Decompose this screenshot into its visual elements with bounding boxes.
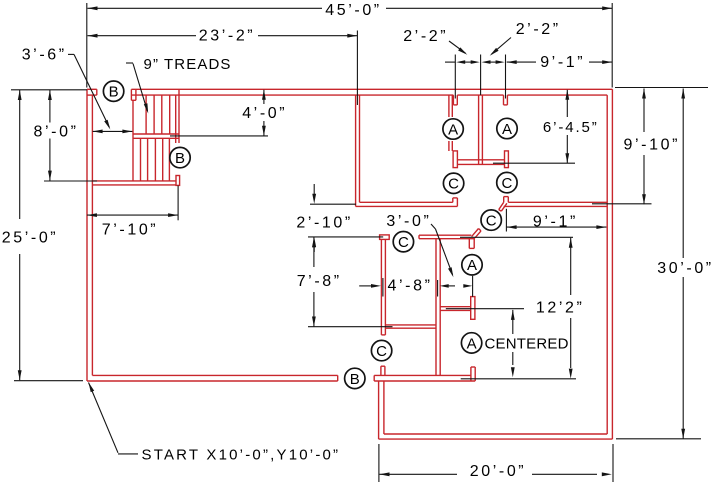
svg-text:A: A [467,257,477,274]
svg-text:2’-2”: 2’-2” [516,21,561,38]
svg-text:12’2”: 12’2” [536,299,585,316]
svg-text:20’-0”: 20’-0” [470,463,527,480]
svg-text:3’-0”: 3’-0” [386,213,431,230]
svg-text:7’-8”: 7’-8” [297,273,342,290]
svg-text:C: C [398,234,409,251]
svg-text:B: B [109,84,119,101]
svg-text:23’-2”: 23’-2” [199,28,256,45]
svg-text:25’-0”: 25’-0” [2,229,59,246]
svg-text:8’-0”: 8’-0” [33,124,78,141]
svg-text:B: B [350,371,360,388]
svg-text:B: B [175,150,185,167]
svg-text:9’-1”: 9’-1” [540,54,585,71]
svg-text:C: C [501,175,512,192]
svg-text:A: A [448,121,458,138]
svg-text:A: A [467,335,477,352]
svg-text:2’-10”: 2’-10” [296,214,353,231]
svg-text:4’-0”: 4’-0” [242,105,287,122]
svg-text:9” TREADS: 9” TREADS [144,56,232,73]
svg-text:C: C [448,176,459,193]
svg-text:START X10’-0”,Y10’-0”: START X10’-0”,Y10’-0” [142,447,341,464]
svg-text:A: A [502,121,512,138]
svg-text:3’-6”: 3’-6” [22,46,67,63]
svg-text:30’-0”: 30’-0” [657,260,714,277]
svg-text:CENTERED: CENTERED [485,335,569,352]
svg-text:6’-4.5”: 6’-4.5” [543,119,599,136]
svg-text:2’-2”: 2’-2” [403,28,448,45]
svg-text:7’-10”: 7’-10” [102,221,159,238]
svg-text:9’-1”: 9’-1” [533,214,578,231]
svg-text:9’-10”: 9’-10” [624,136,681,153]
svg-text:C: C [486,213,497,230]
svg-text:C: C [376,343,387,360]
svg-text:45’-0”: 45’-0” [325,2,382,19]
svg-text:4’-8”: 4’-8” [387,277,432,294]
